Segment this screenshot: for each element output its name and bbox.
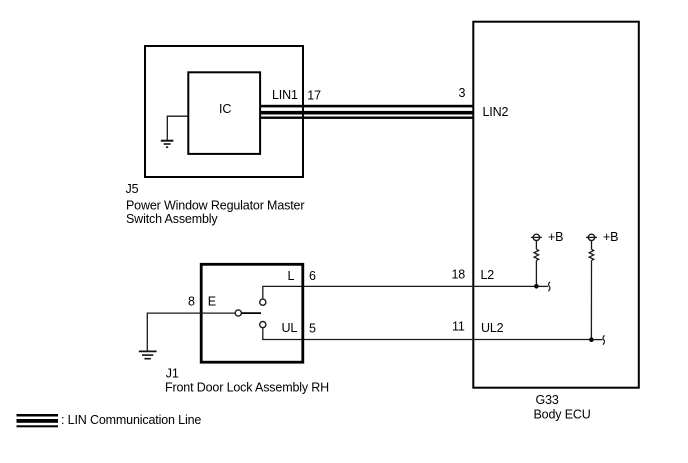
- svg-text:11: 11: [452, 320, 465, 334]
- resistor R1 (zigzag): [534, 249, 539, 260]
- svg-text:8: 8: [188, 295, 195, 309]
- wire E (left to ground): [147, 313, 235, 351]
- squiggle (continuation) UL2: [603, 335, 605, 344]
- +B terminal 1: [531, 234, 542, 240]
- wire terminal2 to resistor R2: [591, 241, 593, 250]
- wire R1 to L2 junction: [535, 260, 537, 286]
- svg-text:Body ECU: Body ECU: [534, 407, 591, 421]
- box J5 Power Window Regulator Master Switch Assembly: [145, 46, 303, 177]
- svg-text:3: 3: [459, 86, 466, 100]
- wire UL / UL2 (from J1 contact UL to G33 junction): [263, 328, 592, 340]
- svg-text:5: 5: [309, 322, 316, 336]
- contact UL: [260, 322, 266, 328]
- svg-text:UL: UL: [282, 321, 298, 335]
- svg-text:LIN2: LIN2: [483, 105, 509, 119]
- svg-text:+B: +B: [548, 230, 563, 244]
- LIN communication line (triple line from IC to G33): [260, 105, 475, 119]
- junction L2: [534, 284, 539, 289]
- svg-text:6: 6: [309, 269, 316, 283]
- svg-text:G33: G33: [536, 393, 559, 407]
- svg-text:UL2: UL2: [481, 321, 504, 335]
- stub UL2 to squiggle: [591, 339, 602, 341]
- wire IC to ground: [167, 116, 188, 140]
- svg-text:18: 18: [452, 268, 466, 282]
- svg-text:L2: L2: [481, 268, 495, 282]
- +B terminal 2: [586, 234, 597, 240]
- svg-text:Power Window Regulator Master: Power Window Regulator Master: [126, 199, 304, 213]
- wire terminal1 to resistor R1: [535, 241, 537, 250]
- stub L2 to squiggle: [536, 285, 548, 287]
- squiggle (continuation) L2: [548, 282, 550, 291]
- svg-text:Switch Assembly: Switch Assembly: [126, 212, 218, 226]
- ground (inside J5): [161, 141, 174, 148]
- box G33 Body ECU: [473, 22, 639, 388]
- svg-text:LIN1: LIN1: [272, 88, 298, 102]
- wire L / L2 (from J1 contact L to G33 junction): [263, 286, 537, 299]
- svg-text:J5: J5: [126, 182, 139, 196]
- switch blade: [242, 312, 261, 314]
- resistor R2 (zigzag): [589, 249, 594, 260]
- svg-text:E: E: [208, 295, 216, 309]
- svg-text:L: L: [288, 269, 295, 283]
- svg-text:+B: +B: [603, 230, 618, 244]
- legend LIN line sample: [17, 414, 59, 427]
- wire R2 to UL2 junction: [590, 260, 592, 339]
- box J1 Front Door Lock Assembly RH: [201, 264, 303, 362]
- svg-text:J1: J1: [166, 367, 179, 381]
- contact L: [260, 299, 266, 305]
- svg-text:17: 17: [307, 89, 321, 103]
- svg-text:IC: IC: [219, 102, 231, 116]
- svg-text:Front Door Lock Assembly RH: Front Door Lock Assembly RH: [165, 381, 329, 395]
- svg-text:: LIN Communication Line: : LIN Communication Line: [61, 413, 201, 427]
- ground (J1 external): [139, 351, 157, 358]
- switch common contact (E): [235, 310, 241, 316]
- junction UL2: [589, 337, 594, 342]
- IC U1 box: [188, 72, 260, 154]
